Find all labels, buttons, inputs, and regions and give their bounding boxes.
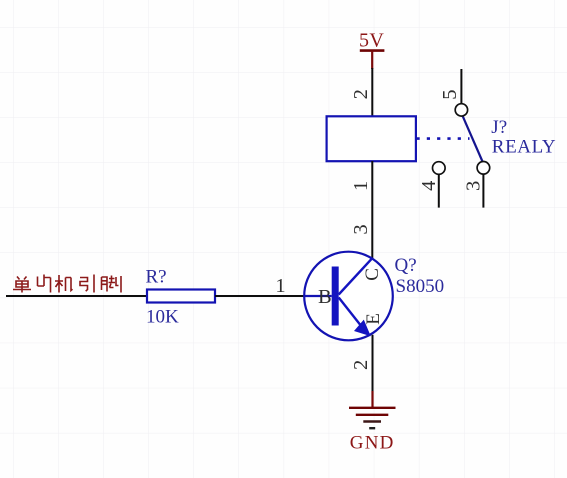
wire MCU pin to resistor (6, 295, 147, 297)
svg-text:5: 5 (439, 89, 461, 99)
svg-text:10K: 10K (146, 307, 179, 328)
pin 4 contact circle (433, 162, 446, 175)
relay coil J? box (327, 116, 416, 161)
ground bar 3 (363, 420, 381, 422)
dotted actuation link (417, 137, 470, 140)
pin 3 contact circle (477, 162, 490, 175)
svg-text:1: 1 (350, 181, 372, 191)
ground bar 4 (369, 427, 375, 429)
ground stub (371, 391, 373, 407)
transistor emitter arrow (354, 320, 371, 337)
transistor collector stroke (339, 258, 373, 295)
svg-text:Q?: Q? (395, 255, 417, 276)
pin 5 contact circle (455, 104, 467, 116)
pin 5 wire (460, 69, 462, 104)
power 5V bar (360, 51, 385, 69)
svg-text:2: 2 (350, 89, 372, 99)
svg-text:C: C (362, 268, 383, 281)
wire relay coil to transistor collector (371, 161, 373, 258)
svg-text:2: 2 (350, 360, 372, 370)
svg-text:J?: J? (491, 117, 507, 138)
transistor base lead (304, 295, 331, 297)
svg-text:B: B (318, 286, 332, 308)
svg-text:5V: 5V (359, 29, 384, 51)
transistor Q? body circle (304, 252, 393, 341)
svg-text:REALY: REALY (492, 137, 556, 158)
transistor emitter stroke (339, 298, 360, 325)
svg-text:R?: R? (146, 266, 167, 287)
svg-text:E: E (363, 313, 384, 325)
switch arm J? (463, 116, 483, 162)
resistor R? (147, 290, 215, 303)
ground bar 2 (356, 414, 389, 416)
svg-text:3: 3 (350, 224, 372, 234)
wire emitter to ground (372, 335, 374, 392)
pin 4 wire (438, 174, 440, 207)
wire 5V to relay coil (371, 68, 373, 117)
svg-text:4: 4 (418, 181, 440, 191)
transistor base bar (332, 267, 339, 326)
svg-text:1: 1 (275, 275, 285, 297)
svg-text:3: 3 (463, 181, 485, 191)
ground bar 1 (349, 407, 396, 409)
svg-text:S8050: S8050 (396, 276, 445, 297)
pin 3 wire (482, 174, 484, 208)
net label 单片机引脚 (13, 275, 121, 293)
wire resistor to transistor base (215, 295, 305, 297)
svg-text:GND: GND (350, 433, 395, 454)
